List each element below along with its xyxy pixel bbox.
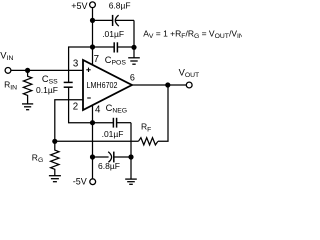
svg-text:0.1µF: 0.1µF xyxy=(36,85,58,95)
wire RF right to output xyxy=(158,85,168,141)
capacitor CSS 0.1uF xyxy=(64,82,73,87)
node junction right bypass at 6.8uF row xyxy=(128,154,133,159)
wire 6.8uF top row right xyxy=(115,19,134,21)
ground for CNEG bypass xyxy=(125,179,137,184)
svg-text:6: 6 xyxy=(130,72,135,82)
resistor RF xyxy=(138,138,158,145)
wire .01uF bottom row xyxy=(93,122,132,124)
wire input row to pin 3 xyxy=(11,69,83,71)
capacitor 6.8uF bottom (polarized) xyxy=(108,152,114,163)
capacitor 6.8uF top (polarized) xyxy=(113,15,119,26)
svg-text:3: 3 xyxy=(73,58,78,69)
wire right bypass vertical (top) xyxy=(133,20,135,57)
svg-text:4: 4 xyxy=(95,104,101,115)
svg-text:7: 7 xyxy=(94,54,99,65)
terminal -5V xyxy=(90,179,96,185)
svg-text:.01µF: .01µF xyxy=(102,129,124,139)
terminal +5V xyxy=(90,2,96,8)
resistor RIN xyxy=(23,70,31,104)
op-amp minus input marker xyxy=(87,97,91,99)
wire CSS branch from +5V node xyxy=(69,47,93,82)
wire output row xyxy=(132,84,186,86)
wire RF row xyxy=(55,140,139,142)
ground for CPOS bypass xyxy=(128,58,140,64)
wire CSS bottom to -5V node xyxy=(69,87,93,123)
wire pin 4 stem to -5V xyxy=(92,105,94,178)
node junction -5V rail at .01uF row xyxy=(90,120,95,125)
capacitor .01uF bottom CNEG xyxy=(113,118,116,128)
svg-text:.01µF: .01µF xyxy=(102,29,124,39)
svg-text:2: 2 xyxy=(73,102,78,113)
svg-text:LMH6702: LMH6702 xyxy=(87,81,118,90)
ground for RIN xyxy=(22,104,33,110)
node junction on +5V rail at 6.8uF row xyxy=(90,18,95,23)
wire right bypass vertical (bottom) xyxy=(130,123,132,179)
wire 6.8uF top row left xyxy=(93,19,113,21)
node junction output xyxy=(165,82,170,87)
wire +5V stem to pin 7 xyxy=(92,8,94,65)
node junction RIN xyxy=(25,68,30,73)
node junction +5V rail at .01uF row xyxy=(90,44,95,49)
capacitor .01uF top CPOS xyxy=(114,42,117,52)
svg-text:+5V: +5V xyxy=(71,1,87,11)
terminal VOUT xyxy=(186,82,192,88)
svg-text:6.8µF: 6.8µF xyxy=(109,0,131,10)
op-amp plus input marker xyxy=(86,68,90,72)
node junction feedback/RG xyxy=(52,139,57,144)
op-amp U1 LMH6702 triangle xyxy=(83,60,132,110)
wire 6.8uF bottom row left xyxy=(93,156,109,158)
node junction right bypass at .01uF row xyxy=(131,45,136,50)
ground for RG xyxy=(49,176,61,182)
resistor RG xyxy=(51,141,59,175)
node junction -5V rail at 6.8uF row xyxy=(90,154,95,159)
wire .01uF top row xyxy=(93,46,135,48)
wire pin 2 to feedback node xyxy=(55,100,83,142)
svg-text:-5V: -5V xyxy=(73,177,87,187)
wire 6.8uF bottom row right xyxy=(114,156,131,158)
terminal VIN xyxy=(5,68,11,74)
svg-text:6.8µF: 6.8µF xyxy=(98,161,120,171)
